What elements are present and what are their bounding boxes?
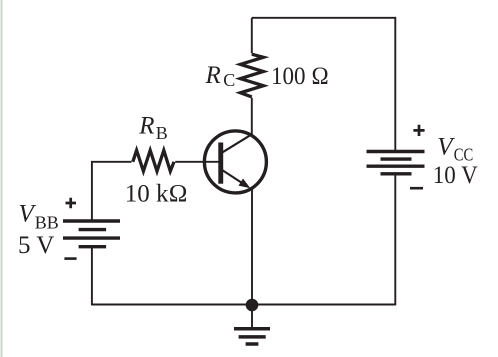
transistor Q1 collector diagonal [223,134,253,152]
wire: left vertical lower (Vbb - to bottom rail) [91,248,93,306]
battery VBB plate 2 (short) [79,228,107,231]
svg-text:C: C [223,70,235,90]
svg-text:R: R [205,62,221,89]
svg-text:B: B [156,123,168,143]
svg-text:BB: BB [35,213,59,233]
resistor RB (10 kohm, horizontal zigzag) [133,150,174,171]
battery VCC plate 1 (+ long) [367,150,425,153]
svg-text:V: V [19,201,37,228]
svg-text:10 kΩ: 10 kΩ [125,181,188,208]
transistor Q1 base bar [218,143,223,184]
wire: collector top stub (top rail to Rc) [251,18,253,54]
transistor Q1 emitter arrowhead [239,179,251,189]
wire: collector stub (Rc bottom to transistor) [251,98,253,135]
battery VBB plate 3 (long) [63,236,120,239]
wire: left vertical upper (base branch corner down to Vbb +) [91,161,93,221]
svg-text:10 V: 10 V [433,162,478,189]
wire: top rail from Rc top to Vcc branch [252,17,395,19]
svg-text:R: R [138,113,154,140]
wire: right vertical upper (top rail to Vcc +) [394,17,396,150]
VBB minus sign [64,257,76,260]
battery VCC plate 4 (- short) [381,172,412,175]
battery VBB plate 1 (+ long) [63,219,120,222]
wire: ground stub below node [251,305,253,328]
page edge line (decorative) [1,0,3,357]
wire: base branch left segment [91,161,132,163]
ground bar 1 [234,327,270,331]
svg-text:100 Ω: 100 Ω [271,63,329,90]
wire: base branch right segment (Rb to base) [175,161,218,163]
wire: bottom rail [92,304,395,306]
transistor Q1 circle [204,131,266,193]
ground bar 2 [239,335,266,339]
resistor RC (100 ohm, vertical zigzag) [240,54,263,97]
battery VCC plate 3 (long) [367,164,425,167]
svg-text:V: V [437,134,455,161]
wire: right vertical lower (Vcc - to bottom rail) [394,175,396,305]
wire: emitter vertical down to bottom rail node [251,190,253,305]
transistor Q1 emitter diagonal [223,170,246,185]
battery VCC plate 2 (short) [381,157,412,160]
VCC minus sign [410,187,423,190]
battery VBB plate 4 (- short) [79,245,107,248]
svg-text:5 V: 5 V [18,232,54,259]
VCC plus sign [413,125,424,136]
VBB plus sign [66,198,77,209]
ground bar 3 [246,342,259,346]
junction node dot [246,299,259,312]
